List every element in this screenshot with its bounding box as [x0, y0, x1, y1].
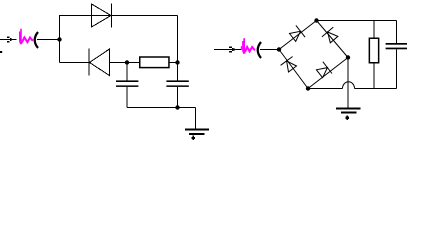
wire mid rail	[60, 62, 178, 64]
wire input left	[0, 39, 17, 41]
capacitor C1	[116, 63, 138, 108]
capacitor C3	[386, 21, 407, 89]
AC source squiggle 2 (magenta)	[241, 38, 246, 54]
wire top rail right	[317, 20, 397, 22]
diode D1 (points right)	[92, 4, 112, 28]
node A junction dot	[57, 37, 61, 41]
input arrow terminal	[7, 37, 14, 43]
wire bottom rail right with hop	[308, 82, 397, 89]
pickup arc (	[35, 32, 38, 48]
wire top rail	[60, 15, 178, 17]
wire R vertex to ground 2	[347, 58, 349, 108]
wire bridge edge TL	[279, 21, 317, 50]
wire to ground 1	[195, 108, 197, 129]
ground 2	[336, 107, 360, 120]
left edge stub	[0, 51, 2, 53]
diode D5 on BL edge	[281, 57, 297, 73]
resistor R2 stem bottom	[373, 64, 375, 89]
capacitor C2	[166, 80, 188, 107]
node D junction dot	[175, 105, 179, 109]
wire arc to node A	[37, 39, 60, 41]
resistor R1	[140, 57, 169, 68]
input arrow terminal 2	[229, 47, 237, 53]
wire input right	[214, 49, 241, 51]
pickup arc 2 (	[258, 42, 261, 58]
wire vertical at node A	[59, 15, 61, 63]
diode D3 on TL edge	[290, 25, 306, 41]
node C junction dot	[175, 60, 179, 64]
node R junction dot	[346, 55, 350, 59]
node L junction dot	[277, 47, 281, 51]
wire arc to bridge	[260, 49, 279, 51]
AC source squiggle (magenta)	[19, 29, 22, 45]
wire bridge edge BL	[279, 50, 308, 89]
wire bridge edge BR	[308, 58, 348, 89]
resistor R2 stem top	[373, 21, 375, 38]
node T junction dot	[314, 18, 318, 22]
ground 1	[185, 128, 209, 140]
diode D6 on BR edge	[316, 62, 332, 78]
wire bridge edge TR	[317, 21, 349, 58]
node B junction dot	[125, 60, 129, 64]
node Bm junction dot	[306, 86, 310, 90]
diode D4 on TR edge	[322, 27, 338, 43]
wire bottom rail	[127, 107, 196, 109]
diode D2 (points left)	[89, 49, 110, 76]
resistor R2	[369, 38, 378, 63]
wire right vertical	[177, 16, 179, 81]
